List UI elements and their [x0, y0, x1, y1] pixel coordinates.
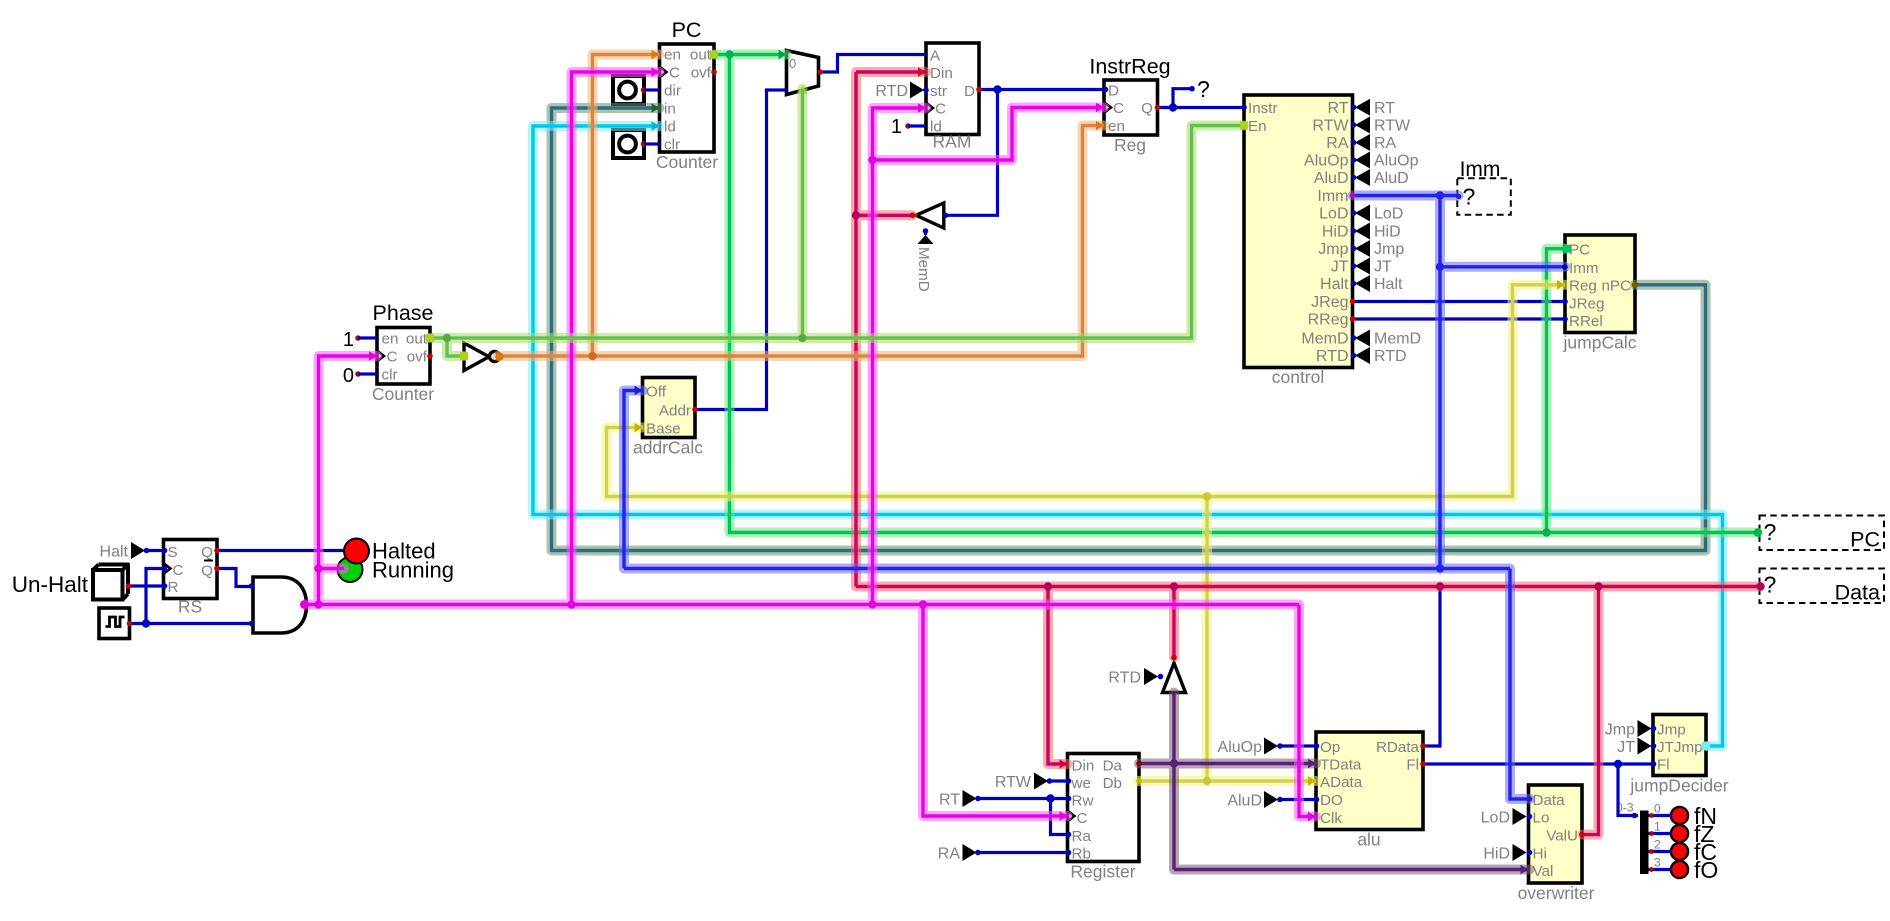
multiplexer (PC / addrCalc address select): [787, 51, 819, 95]
tunnel LoD (overwriter Lo): [1481, 808, 1527, 827]
svg-text:Reg: Reg: [1569, 278, 1597, 295]
svg-text:Instr: Instr: [1248, 100, 1278, 117]
svg-text:AluOp: AluOp: [1374, 153, 1419, 170]
svg-text:RTW: RTW: [995, 774, 1032, 791]
junction dots green net: [725, 50, 1762, 536]
svg-text:S: S: [168, 544, 178, 561]
svg-text:1: 1: [891, 116, 902, 138]
svg-text:JT: JT: [1331, 259, 1349, 276]
tunnel AluOp (alu Op): [1218, 738, 1283, 757]
wire net En: Phase out to control En, inverter input, mux select: [430, 89, 1244, 357]
svg-text:Halt: Halt: [100, 544, 129, 561]
svg-text:Counter: Counter: [656, 152, 718, 172]
junction dots Imm net: [1436, 191, 1444, 572]
wire net PCout: PC out to mux, jumpCalc PC, PC output probe: [714, 55, 1758, 533]
svg-text:AluD: AluD: [1227, 793, 1262, 810]
wire const-0 to Phase clr: [358, 372, 377, 375]
svg-text:?: ?: [1463, 184, 1476, 210]
junction dots En net: [443, 334, 807, 342]
svg-text:D: D: [964, 83, 975, 100]
svg-text:Imm: Imm: [1460, 158, 1501, 181]
svg-text:Hi: Hi: [1533, 846, 1547, 863]
svg-text:DO: DO: [1320, 792, 1343, 809]
LED fC: [1671, 839, 1717, 865]
svg-text:Op: Op: [1320, 739, 1340, 756]
svg-text:Jmp: Jmp: [1605, 722, 1635, 739]
tunnel LoD (control output): [1351, 205, 1404, 223]
wire RS Q to Halted LED: [217, 549, 344, 552]
svg-text:Fl: Fl: [1657, 757, 1670, 774]
tunnel AluOp (control output): [1351, 152, 1419, 170]
tunnel RTW (Register we): [995, 773, 1052, 792]
svg-text:C: C: [173, 562, 184, 579]
svg-text:Q: Q: [201, 563, 213, 580]
wire mux output to RAM A: [820, 55, 926, 73]
svg-text:0: 0: [789, 56, 796, 71]
svg-text:JT: JT: [1374, 259, 1392, 276]
svg-text:ovf: ovf: [691, 65, 712, 82]
wire AluOp tunnel to alu Op: [1280, 744, 1316, 747]
svg-text:A: A: [930, 48, 941, 65]
tunnel HiD (control output): [1351, 223, 1401, 241]
svg-text:en: en: [1108, 118, 1125, 135]
svg-text:PC: PC: [672, 18, 702, 42]
wire AluD tunnel to alu DO: [1280, 798, 1316, 801]
svg-text:JReg: JReg: [1569, 296, 1604, 313]
svg-text:3: 3: [1654, 856, 1661, 870]
wire net Clk: AND output to Phase C, Running LED, PC C, RAM C, InstrReg C, Register C, alu Clk: [306, 72, 1316, 817]
tri-state driver MemD (RAM D to Data bus): [916, 203, 944, 235]
wire addrCalc Addr to mux input 1: [695, 90, 787, 410]
svg-text:nPC: nPC: [1601, 278, 1631, 295]
svg-text:Fl: Fl: [1406, 757, 1419, 774]
svg-text:AluOp: AluOp: [1218, 739, 1263, 756]
AND gate (run & clock): [253, 577, 307, 633]
wire const-1 to Phase en: [358, 336, 377, 339]
tunnel JT (jumpDecider JTJmp): [1617, 738, 1651, 757]
svg-text:TData: TData: [1320, 757, 1362, 774]
svg-text:AluD: AluD: [1314, 170, 1349, 187]
svg-text:Phase: Phase: [373, 301, 434, 325]
wire InstrReg Q to control Instr with probe tap: [1158, 89, 1245, 108]
probe ? (InstrReg Q): [1189, 76, 1210, 102]
svg-text:RTW: RTW: [1312, 118, 1349, 135]
wire RA tunnel to Register Rb: [979, 851, 1068, 854]
svg-text:en: en: [382, 331, 399, 348]
wire Un-Halt button to RS R: [129, 584, 164, 587]
wire net Imm: control Imm to Imm probe, jumpCalc Imm, addrCalc Off, overwriter Data: [624, 196, 1565, 800]
svg-text:en: en: [664, 47, 681, 64]
block alu: [1316, 732, 1423, 850]
wire O-pad to PC clr: [644, 142, 660, 145]
wire RS Qn to AND gate input: [217, 569, 253, 587]
svg-text:ValU: ValU: [1546, 828, 1578, 845]
tunnel RT (Register Rw/Ra): [939, 790, 981, 809]
svg-text:Q: Q: [201, 544, 213, 561]
svg-text:clr: clr: [664, 137, 680, 154]
svg-text:0: 0: [1654, 802, 1661, 816]
svg-text:MemD: MemD: [915, 247, 932, 292]
svg-text:Jmp: Jmp: [1318, 241, 1348, 258]
svg-text:Imm: Imm: [1317, 188, 1348, 205]
wire net Data: RAM Din, MemD driver, Register Din, RTD driver, overwriter ValU, Data probe: [856, 72, 1760, 835]
block overwriter: [1518, 785, 1595, 903]
wire RAM D to InstrReg D and MemD driver: [946, 90, 1105, 216]
svg-text:Val: Val: [1533, 863, 1554, 880]
block jumpCalc: [1563, 235, 1637, 353]
svg-text:Un-Halt: Un-Halt: [12, 572, 89, 597]
svg-text:fO: fO: [1694, 857, 1718, 883]
svg-text:Ra: Ra: [1072, 828, 1092, 845]
svg-text:0: 0: [343, 365, 354, 387]
counter Phase: [372, 301, 434, 404]
svg-text:in: in: [664, 101, 676, 118]
tri-state driver RTD (Da to Data bus): [1163, 663, 1186, 693]
junction dot Da net: [1170, 759, 1178, 767]
junction dots yellow net: [1203, 492, 1211, 785]
splitter 0-3 (flags): [1616, 801, 1661, 875]
svg-text:HiD: HiD: [1374, 224, 1401, 241]
wire RT tunnel to Register Rw and Ra: [979, 799, 1068, 835]
svg-text:out: out: [690, 47, 712, 64]
button Un-Halt: [12, 565, 128, 600]
svg-text:?: ?: [1764, 519, 1777, 545]
svg-text:HiD: HiD: [1483, 846, 1510, 863]
svg-text:jumpDecider: jumpDecider: [1629, 776, 1728, 796]
svg-text:Counter: Counter: [372, 384, 434, 404]
svg-text:LoD: LoD: [1374, 206, 1403, 223]
wire clock to AND gate and RS C: [130, 569, 254, 624]
junction dots Clk net: [314, 156, 927, 609]
svg-text:Addr: Addr: [659, 403, 691, 420]
svg-text:Din: Din: [1072, 758, 1095, 775]
pin dots and pads layer: [126, 50, 1710, 875]
svg-text:2: 2: [1654, 838, 1661, 852]
output probe PC: [1760, 516, 1885, 552]
tunnel HiD (overwriter Hi): [1483, 844, 1526, 863]
svg-text:RAM: RAM: [933, 132, 972, 152]
svg-text:HiD: HiD: [1322, 224, 1349, 241]
svg-text:Db: Db: [1103, 775, 1122, 792]
svg-text:RT: RT: [1327, 100, 1348, 117]
input pad O (PC clr): [613, 130, 646, 158]
svg-text:Q: Q: [1141, 100, 1153, 117]
register file Register: [1068, 754, 1140, 882]
svg-text:Base: Base: [646, 421, 681, 438]
svg-text:Off: Off: [646, 384, 667, 401]
svg-text:D: D: [1108, 83, 1119, 100]
svg-text:Data: Data: [1533, 792, 1566, 809]
LED fZ: [1671, 821, 1715, 847]
svg-text:JTJmp: JTJmp: [1657, 739, 1703, 756]
svg-text:Data: Data: [1835, 581, 1880, 605]
register InstrReg: [1089, 55, 1170, 156]
svg-text:Halt: Halt: [1374, 276, 1403, 293]
svg-text:ld: ld: [664, 119, 676, 136]
svg-text:PC: PC: [1569, 242, 1590, 259]
svg-text:C: C: [669, 65, 680, 82]
svg-text:Halt: Halt: [1320, 276, 1349, 293]
wire alu Fl to jumpDecider Fl and splitter: [1423, 764, 1654, 816]
svg-text:dir: dir: [664, 83, 681, 100]
LED fN: [1671, 803, 1717, 829]
svg-text:MemD: MemD: [1301, 331, 1348, 348]
svg-text:RTD: RTD: [1108, 670, 1141, 687]
counter PC: [656, 18, 718, 172]
tunnel Halt (control output): [1351, 275, 1403, 293]
flip-flop RS: [164, 540, 218, 617]
tunnel RTD (control output): [1351, 347, 1407, 365]
block control: [1244, 95, 1353, 387]
wires splitter outputs to flag LEDs: [1649, 816, 1672, 870]
wire net Db: Register Db to alu AData, addrCalc Base, jumpCalc Reg: [607, 285, 1566, 781]
svg-text:En: En: [1248, 118, 1267, 135]
wire control RReg to jumpCalc RRel: [1353, 317, 1566, 320]
svg-text:Da: Da: [1103, 758, 1123, 775]
tunnel Halt (RS S input): [100, 542, 150, 561]
LED Running (green): [338, 557, 454, 583]
wire net JTJmp: jumpDecider JTJmp to PC ld: [533, 126, 1723, 746]
svg-text:JReg: JReg: [1311, 294, 1348, 311]
svg-text:Lo: Lo: [1533, 810, 1550, 827]
svg-text:JT: JT: [1617, 739, 1635, 756]
inverter (Phase out to nEn): [464, 343, 500, 371]
svg-text:RRel: RRel: [1569, 313, 1603, 330]
svg-text:InstrReg: InstrReg: [1089, 55, 1170, 79]
svg-text:?: ?: [1764, 572, 1777, 598]
svg-text:Register: Register: [1070, 862, 1135, 882]
constant 0 (Phase clr): [343, 365, 361, 387]
tunnel Jmp (control output): [1351, 240, 1405, 258]
constant 1 (RAM ld): [891, 116, 911, 138]
svg-text:AData: AData: [1320, 774, 1363, 791]
svg-text:RS: RS: [178, 597, 202, 617]
svg-text:out: out: [406, 331, 428, 348]
svg-text:LoD: LoD: [1319, 206, 1348, 223]
svg-text:we: we: [1071, 775, 1091, 792]
svg-text:1: 1: [1654, 820, 1661, 834]
block addrCalc: [633, 378, 703, 458]
svg-text:RTW: RTW: [1374, 118, 1411, 135]
svg-text:addrCalc: addrCalc: [633, 438, 703, 458]
tunnel RTD (driver enable): [1108, 668, 1158, 687]
svg-text:RA: RA: [938, 846, 961, 863]
LED Halted (red): [344, 539, 436, 564]
svg-text:RTD: RTD: [1316, 348, 1349, 365]
svg-text:RReg: RReg: [1308, 312, 1349, 329]
svg-text:Clk: Clk: [1320, 810, 1342, 827]
tunnel AluD (control output): [1351, 169, 1409, 187]
constant 1 (Phase en): [343, 329, 361, 351]
svg-text:MemD: MemD: [1374, 331, 1421, 348]
wire O-pad to PC dir: [644, 88, 660, 91]
svg-text:RT: RT: [939, 792, 960, 809]
RAM: [926, 43, 979, 152]
wire control JReg to jumpCalc JReg: [1353, 300, 1566, 303]
svg-text:AluOp: AluOp: [1304, 153, 1349, 170]
LED fO: [1671, 857, 1718, 883]
svg-text:Halted: Halted: [372, 539, 436, 564]
block jumpDecider: [1629, 715, 1728, 796]
svg-text:RTD: RTD: [875, 83, 908, 100]
svg-text:str: str: [930, 83, 947, 100]
tunnel RT (control output): [1351, 99, 1396, 117]
svg-text:C: C: [387, 349, 398, 366]
svg-text:Jmp: Jmp: [1374, 241, 1404, 258]
svg-text:C: C: [1113, 100, 1124, 117]
svg-text:Imm: Imm: [1569, 260, 1599, 277]
svg-text:AluD: AluD: [1374, 170, 1409, 187]
wire const-1 to RAM ld: [908, 124, 926, 127]
tunnel RA (control output): [1351, 134, 1397, 152]
svg-text:RT: RT: [1374, 100, 1395, 117]
junction dots navy: [142, 85, 1622, 802]
svg-text:Rw: Rw: [1072, 793, 1094, 810]
tunnel JT (control output): [1351, 258, 1392, 276]
svg-text:C: C: [935, 101, 946, 118]
tunnel RTW (control output): [1351, 117, 1411, 135]
svg-text:RTD: RTD: [1374, 348, 1407, 365]
svg-text:1: 1: [343, 329, 354, 351]
junction dots Data net: [852, 211, 1765, 591]
svg-text:?: ?: [1197, 76, 1210, 102]
wire Halt tunnel to RS S: [146, 549, 164, 552]
input pad O (PC dir): [613, 76, 646, 104]
wire net Da: Register Da to RTD driver, alu TData, overwriter Val: [1139, 693, 1530, 870]
tunnel AluD (alu DO): [1227, 791, 1282, 810]
tunnel Jmp (jumpDecider Jmp): [1605, 720, 1652, 739]
svg-text:clr: clr: [382, 367, 398, 384]
svg-text:RData: RData: [1376, 739, 1420, 756]
output probe Imm: [1457, 158, 1511, 215]
junction dot orange net: [588, 352, 596, 360]
svg-text:Din: Din: [930, 65, 953, 82]
svg-text:ovf: ovf: [407, 349, 428, 366]
svg-text:RA: RA: [1326, 135, 1349, 152]
wire alu RData up to Data bus: [1423, 587, 1441, 747]
svg-text:R: R: [168, 579, 179, 596]
svg-text:jumpCalc: jumpCalc: [1563, 333, 1637, 353]
clock generator: [99, 608, 130, 639]
wire RTW tunnel to Register we: [1050, 779, 1068, 782]
svg-text:control: control: [1272, 367, 1325, 387]
svg-text:PC: PC: [1850, 528, 1880, 552]
tunnel RA (Register Rb): [938, 844, 981, 863]
tunnel RTD (RAM str): [875, 82, 928, 101]
svg-text:alu: alu: [1357, 830, 1380, 850]
svg-text:C: C: [1077, 810, 1088, 827]
svg-text:Jmp: Jmp: [1657, 722, 1686, 739]
output probe Data: [1760, 569, 1885, 605]
svg-text:Rb: Rb: [1072, 846, 1091, 863]
wire net nPC: jumpCalc nPC to PC in: [552, 108, 1706, 551]
wire net nEn: inverter output to InstrReg en and PC en: [498, 55, 1105, 357]
svg-text:RA: RA: [1374, 135, 1397, 152]
svg-text:Reg: Reg: [1114, 135, 1146, 155]
svg-text:overwriter: overwriter: [1518, 883, 1595, 903]
tunnel MemD (control output): [1351, 330, 1421, 348]
svg-text:LoD: LoD: [1481, 810, 1510, 827]
tunnel MemD (driver enable): [915, 235, 934, 292]
